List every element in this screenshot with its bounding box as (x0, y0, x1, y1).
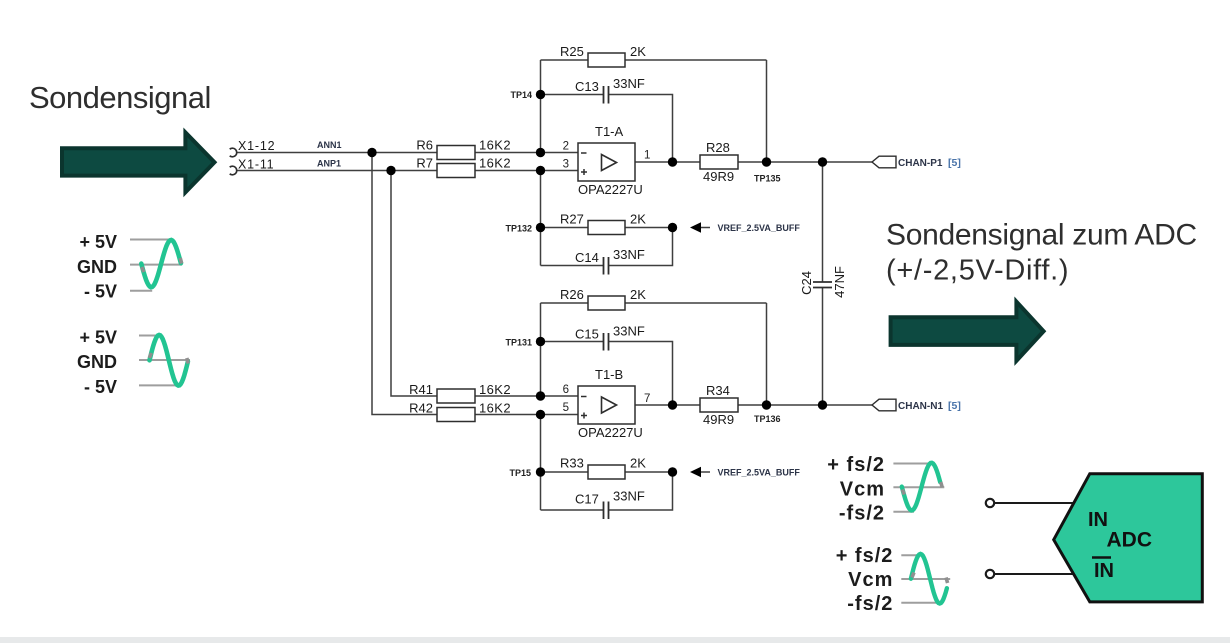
bottom gray strip (0, 637, 1230, 643)
svg-text:C14: C14 (575, 250, 599, 265)
wire C17 right (609, 472, 673, 510)
svg-text:[5]: [5] (948, 157, 961, 169)
svg-text:C24: C24 (799, 271, 814, 295)
op-amp T1-B triangle (602, 397, 617, 413)
capacitor C15 (604, 333, 609, 351)
ADC body (1054, 474, 1203, 602)
svg-text:Vcm: Vcm (848, 569, 893, 591)
wire C15 left (541, 341, 604, 343)
wire VREF stub bottom (701, 471, 710, 473)
legend3 level lines (893, 464, 944, 512)
svg-text:R33: R33 (560, 456, 584, 471)
resistor R41 (437, 389, 475, 403)
svg-text:OPA2227U: OPA2227U (578, 182, 643, 197)
svg-text:33NF: 33NF (613, 324, 645, 339)
legend1 wave ticks (142, 258, 182, 272)
capacitor C14 (604, 257, 609, 275)
op-amp T1-A minus (581, 152, 587, 154)
svg-text:- 5V: - 5V (84, 377, 117, 397)
svg-text:GND: GND (77, 257, 117, 277)
svg-text:- 5V: - 5V (84, 282, 117, 302)
svg-text:GND: GND (77, 352, 117, 372)
resistor R34 (700, 398, 738, 412)
legend4 sine wave (911, 554, 947, 604)
legend3 sine wave (902, 463, 940, 511)
wire C24 top (822, 162, 824, 282)
svg-text:IN: IN (1094, 560, 1114, 582)
capacitor C13 (604, 86, 609, 104)
op-amp U T1-B body (578, 386, 635, 424)
legend1 labels +5V GND -5V (77, 232, 117, 302)
svg-text:VREF_2.5VA_BUFF: VREF_2.5VA_BUFF (718, 223, 801, 233)
svg-text:3: 3 (563, 159, 569, 171)
svg-text:Vcm: Vcm (840, 479, 885, 501)
svg-text:ANP1: ANP1 (317, 159, 341, 169)
node TP135 (762, 157, 771, 166)
svg-text:X1-11: X1-11 (238, 158, 274, 172)
node ANP1 junction (386, 166, 395, 175)
wire R27 line (541, 227, 673, 229)
svg-text:49R9: 49R9 (703, 412, 734, 427)
capacitor C24 (813, 282, 832, 288)
wire C14 left (541, 265, 604, 267)
op-amp T1-A plus (581, 169, 587, 175)
wire VREF stub top (701, 227, 710, 229)
node T1-B output junction (668, 400, 677, 409)
svg-text:X1-12: X1-12 (238, 139, 275, 153)
svg-text:C13: C13 (575, 79, 599, 94)
node TP131 (536, 337, 545, 346)
svg-text:R42: R42 (409, 401, 433, 416)
svg-text:(+/-2,5V-Diff.): (+/-2,5V-Diff.) (886, 255, 1069, 287)
wire ANP1 drop to R41 (391, 171, 578, 397)
svg-text:R34: R34 (706, 383, 730, 398)
svg-text:R26: R26 (560, 287, 584, 302)
node pin6 junction (536, 391, 545, 400)
wire T1-B output (635, 404, 872, 406)
INbar overline (1092, 556, 1111, 559)
svg-text:R41: R41 (409, 382, 433, 397)
svg-text:TP136: TP136 (754, 414, 781, 424)
wire R25 right down to TP135 (766, 60, 768, 162)
svg-text:C15: C15 (575, 327, 599, 342)
wire T1-A output (635, 161, 872, 163)
svg-text:T1-A: T1-A (595, 124, 624, 139)
svg-text:5: 5 (563, 402, 569, 414)
node C24 top junction (818, 157, 827, 166)
svg-text:2K: 2K (630, 212, 646, 227)
wire ANP1 input line (236, 170, 578, 172)
svg-text:TP14: TP14 (510, 90, 532, 100)
wire plus T1-A vertical down (540, 171, 542, 266)
svg-text:ADC: ADC (1107, 529, 1153, 552)
node TP132 (536, 223, 545, 232)
wire C24 bottom (822, 288, 824, 406)
svg-text:33NF: 33NF (613, 247, 645, 262)
svg-text:-fs/2: -fs/2 (839, 503, 885, 525)
wire C17 left (541, 509, 604, 511)
wire C14 right (609, 228, 673, 266)
arrow input (dark teal) (62, 132, 215, 192)
svg-text:+ 5V: + 5V (79, 232, 117, 252)
wire R33 line (541, 471, 673, 473)
node T1-A output junction (668, 157, 677, 166)
svg-text:C17: C17 (575, 492, 599, 507)
VREF arrow top (690, 222, 701, 232)
legend1 sine wave (141, 240, 181, 287)
svg-text:2K: 2K (630, 456, 646, 471)
node ANN1 junction (367, 148, 376, 157)
wire C15 right (609, 342, 673, 406)
svg-text:OPA2227U: OPA2227U (578, 425, 643, 440)
wire ANN1 input line (236, 152, 578, 154)
node pin3 junction (536, 166, 545, 175)
connector CHAN-P1 (872, 156, 896, 168)
svg-text:TP131: TP131 (505, 338, 532, 348)
svg-text:49R9: 49R9 (703, 169, 734, 184)
svg-text:+ 5V: + 5V (79, 328, 117, 348)
svg-text:TP15: TP15 (509, 468, 531, 478)
svg-text:IN: IN (1088, 509, 1108, 531)
op-amp T1-B plus (581, 413, 587, 419)
svg-text:33NF: 33NF (613, 489, 645, 504)
legend2 labels (77, 328, 117, 398)
wire R25 feedback top (541, 59, 767, 61)
svg-text:TP132: TP132 (505, 224, 532, 234)
svg-text:33NF: 33NF (613, 76, 645, 91)
svg-text:2K: 2K (630, 287, 646, 302)
op-amp T1-A triangle (602, 155, 617, 171)
ADC input wire INbar (990, 573, 1074, 575)
node TP136 (762, 400, 771, 409)
svg-text:ANN1: ANN1 (317, 140, 342, 150)
resistor R28 (700, 155, 738, 169)
svg-text:47NF: 47NF (832, 266, 847, 298)
legend3 labels +fs/2 Vcm -fs/2 (827, 454, 885, 525)
svg-text:16K2: 16K2 (479, 138, 511, 153)
svg-text:R6: R6 (416, 138, 433, 153)
node TP15 (536, 467, 545, 476)
svg-text:R25: R25 (560, 44, 584, 59)
legend3 wave ticks (902, 482, 942, 495)
svg-text:16K2: 16K2 (479, 382, 511, 397)
connector pin X1-12 (230, 148, 237, 157)
resistor R42 (437, 408, 475, 422)
svg-text:16K2: 16K2 (479, 401, 511, 416)
resistor R26 (588, 296, 625, 310)
svg-text:Sondensignal zum ADC: Sondensignal zum ADC (886, 219, 1197, 252)
svg-text:CHAN-P1: CHAN-P1 (898, 158, 943, 169)
svg-text:T1-B: T1-B (595, 367, 623, 382)
legend2 wave ticks (149, 353, 188, 364)
VREF arrow bottom (690, 467, 701, 477)
svg-text:1: 1 (644, 150, 650, 162)
legend2 sine wave (150, 335, 188, 386)
capacitor C17 (604, 502, 609, 520)
ADC input wire IN (990, 502, 1074, 504)
resistor R7 (437, 164, 475, 178)
svg-text:[5]: [5] (948, 400, 961, 412)
wire node minus T1-B vertical (540, 303, 542, 396)
node C24 bottom junction (818, 400, 827, 409)
node R27 VREF junction (668, 223, 677, 232)
node R33 VREF junction (668, 467, 677, 476)
op-amp T1-B minus (581, 396, 587, 398)
wire plus T1-B vertical down (540, 415, 542, 511)
wire ANN1 drop to R42 (372, 153, 578, 415)
connector CHAN-N1 (872, 399, 896, 411)
wire R26 right down to TP136 (766, 303, 768, 405)
svg-text:CHAN-N1: CHAN-N1 (898, 401, 943, 412)
svg-text:TP135: TP135 (754, 174, 781, 184)
svg-text:7: 7 (644, 393, 650, 405)
legend4 labels (836, 545, 894, 615)
legend2 level lines (139, 336, 190, 386)
svg-text:16K2: 16K2 (479, 156, 511, 171)
wire C13 left (541, 94, 604, 96)
legend4 level lines (901, 555, 950, 603)
svg-text:6: 6 (563, 384, 569, 396)
svg-text:2K: 2K (630, 44, 646, 59)
svg-text:Sondensignal: Sondensignal (29, 80, 211, 115)
resistor R25 (588, 53, 625, 67)
wire R26 feedback (541, 302, 767, 304)
svg-text:2: 2 (563, 141, 569, 153)
node TP14 (536, 90, 545, 99)
connector pin X1-11 (230, 166, 237, 175)
legend4 wave ticks (912, 573, 948, 584)
wire C13 right (609, 95, 673, 163)
ADC input terminal IN (986, 499, 994, 507)
svg-text:+ fs/2: + fs/2 (836, 545, 894, 567)
svg-text:VREF_2.5VA_BUFF: VREF_2.5VA_BUFF (718, 468, 801, 478)
resistor R6 (437, 146, 475, 160)
svg-text:R7: R7 (416, 156, 433, 171)
node pin2 junction (536, 148, 545, 157)
svg-text:+ fs/2: + fs/2 (827, 454, 885, 476)
svg-text:-fs/2: -fs/2 (847, 593, 893, 615)
svg-text:R27: R27 (560, 212, 584, 227)
arrow to ADC (dark teal) (891, 302, 1044, 361)
svg-text:R28: R28 (706, 140, 730, 155)
resistor R27 (588, 221, 625, 235)
op-amp U T1-A body (578, 143, 635, 181)
node pin5 junction (536, 410, 545, 419)
ADC input terminal INbar (986, 570, 994, 578)
legend1 level lines (130, 240, 182, 291)
resistor R33 (588, 465, 625, 479)
wire node minus T1-A vertical (540, 60, 542, 153)
